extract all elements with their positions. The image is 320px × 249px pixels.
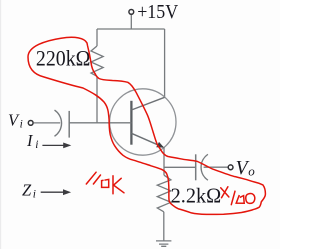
resistor 2.2k zigzag	[157, 175, 171, 212]
red scribble loop around 220k, transistor, 2.2k and X100	[28, 37, 265, 214]
wire C2 to Vo	[204, 166, 229, 168]
node Vi terminal	[28, 121, 33, 126]
red handwriting X100 second 0	[246, 194, 255, 204]
capacitor C2 curved plate	[201, 154, 208, 180]
red handwriting 110k letter o	[102, 179, 109, 187]
red handwriting X100 letter X	[221, 187, 229, 198]
wire rail to R1 top	[96, 29, 98, 46]
red handwriting 110k slash 2	[93, 175, 100, 184]
capacitor C1 curved plate	[55, 110, 62, 136]
svg-text:o: o	[248, 164, 255, 179]
svg-text:220kΩ: 220kΩ	[36, 46, 91, 71]
arrow Zi	[41, 191, 63, 193]
capacitor C1 straight plate	[68, 111, 70, 138]
red handwriting 110k letter k	[113, 176, 124, 194]
arrow Ii	[42, 144, 64, 146]
wire output branch horizontal	[164, 166, 196, 168]
red handwriting X100 first 0	[236, 195, 244, 203]
svg-text:i: i	[33, 189, 36, 201]
wire collector vertical	[164, 29, 166, 97]
wire +15V drop	[130, 14, 132, 29]
node Vo terminal	[228, 165, 233, 170]
wire Vi to C1	[34, 122, 61, 124]
wire R2 bottom to ground	[163, 212, 165, 241]
transistor emitter stroke	[131, 133, 163, 147]
svg-text:2.2kΩ: 2.2kΩ	[171, 184, 222, 208]
capacitor C2 straight plate	[195, 154, 197, 180]
svg-text:Z: Z	[22, 181, 32, 200]
transistor base bar	[130, 101, 132, 145]
wire top horizontal rail	[97, 28, 165, 30]
red handwriting 110k slash 1	[86, 172, 96, 184]
transistor Q1 circle	[110, 89, 176, 155]
resistor 220k zigzag	[91, 46, 103, 76]
node +15V terminal	[129, 10, 134, 15]
transistor collector stroke	[131, 97, 164, 110]
transistor emitter arrowhead	[156, 142, 164, 148]
ground	[156, 241, 171, 246]
svg-text:i: i	[35, 139, 38, 151]
red handwriting X100 slash	[231, 191, 235, 205]
svg-text:i: i	[20, 119, 23, 131]
svg-text:+15V: +15V	[137, 1, 178, 23]
wire emitter down to output node	[163, 147, 165, 175]
wire C1 to base	[69, 122, 131, 124]
wire R1 bottom to base node	[96, 76, 98, 123]
